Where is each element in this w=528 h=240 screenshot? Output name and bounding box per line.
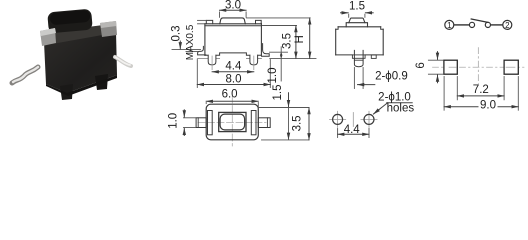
ref line y107.5 (259, 107, 310, 109)
boss right (front) (250, 55, 258, 65)
dim 1.5 line left arrow (341, 12, 349, 14)
hole left circle (333, 114, 343, 124)
photo body front face (44, 31, 117, 93)
MAX0.5 ref line body top ext (198, 23, 205, 25)
dim 4.4 line (holes) (338, 133, 369, 135)
body side right (260, 24, 262, 56)
dim 6 arrows (437, 52, 439, 60)
svg-text:H: H (294, 35, 306, 43)
body top (side) (338, 26, 381, 28)
foot top ref line left (186, 51, 198, 53)
photo metal cap left (40, 28, 56, 46)
hole left centerlines (330, 118, 346, 120)
dim 9.0 ext lines (443, 77, 445, 111)
schematic wire right (491, 24, 503, 26)
pad right (504, 60, 518, 74)
dim 7.2 ext lines (456, 77, 458, 100)
svg-text:7.2: 7.2 (473, 84, 489, 96)
dim 9.0 line (444, 106, 518, 108)
svg-text:6.0: 6.0 (222, 89, 238, 101)
body side left (204, 24, 206, 56)
photo bottom boss right (95, 74, 108, 90)
top view contact bar left (208, 111, 213, 135)
photo left leg (12, 67, 38, 83)
tab left (206, 20, 212, 23)
dim 4.4 boss centerlines (211, 56, 213, 70)
dim 1.5 line (top view) (288, 93, 290, 107)
H top ext line (247, 17, 311, 19)
top view button outer (219, 112, 246, 131)
dim 1.5 line right arrow (365, 12, 373, 14)
boss left (front) (208, 55, 216, 65)
top view centerline vertical (231, 96, 233, 146)
photo body lower edge shade (46, 75, 117, 96)
svg-text:1.0: 1.0 (267, 68, 279, 84)
dim 4.4 ext lines (holes) (337, 129, 339, 138)
top view body (206, 104, 258, 140)
schematic contact right (485, 22, 490, 27)
svg-text:1: 1 (447, 21, 452, 30)
body sides (side) (335, 29, 337, 55)
photo right leg (115, 57, 131, 66)
top view contact bar right (251, 111, 256, 135)
foot right (262, 44, 270, 57)
dim 3.0 ext lines (219, 12, 221, 17)
stem collar (side) (346, 23, 367, 27)
svg-text:holes: holes (387, 102, 415, 114)
dim 1.0 ext lines (184, 117, 196, 119)
mid centerline tick (352, 113, 354, 127)
dim 3.0 line (220, 9, 247, 11)
schematic contact left (469, 22, 474, 27)
svg-text:0.3: 0.3 (171, 26, 183, 42)
2-phi0.9 leader arrow (358, 84, 375, 86)
schematic terminal 2 circle (503, 20, 512, 29)
svg-text:MAX0.5: MAX0.5 (185, 24, 196, 60)
MAX0.5 ref line tab top ext (198, 19, 207, 21)
svg-text:4.4: 4.4 (225, 61, 242, 73)
svg-text:3.5: 3.5 (281, 33, 293, 49)
tab right (256, 20, 262, 23)
hole right circle (364, 114, 374, 124)
dim 6.0 line (206, 100, 258, 102)
dim 6 ext lines (428, 59, 443, 61)
svg-text:3.0: 3.0 (225, 0, 241, 11)
body bottom profile (205, 53, 262, 55)
button (front) (220, 18, 246, 24)
schematic lever (471, 19, 489, 23)
foot bottom ext right (270, 51, 288, 53)
body bottom (side) (336, 54, 353, 56)
svg-text:8.0: 8.0 (226, 74, 242, 86)
dim 8.0 line (197, 84, 270, 86)
body corner step right (381, 27, 384, 29)
top view button inner (220, 114, 245, 130)
dim 1.0 arrowheads (280, 52, 283, 55)
seating ext line right (270, 57, 316, 59)
stem (side) (349, 18, 365, 23)
2-phi0.9 ext lines (353, 68, 355, 89)
svg-text:9.0: 9.0 (480, 99, 496, 111)
dim 1.0 line (280, 47, 282, 81)
dim H line (309, 18, 311, 59)
boss (side) (354, 50, 363, 66)
top view centerline horizontal (198, 122, 266, 124)
dim 1.0 arrows (183, 110, 185, 117)
svg-text:2-ϕ0.9: 2-ϕ0.9 (375, 71, 408, 83)
pad right center dash (506, 66, 515, 68)
schematic terminal 1 circle (445, 20, 454, 29)
dim 1.5 ext lines (348, 14, 350, 17)
photo bottom boss left (60, 84, 73, 100)
dim 3.5 line (top view) (308, 108, 310, 140)
pad left (444, 60, 457, 74)
body top line (205, 23, 262, 25)
holes leader underline (387, 102, 413, 104)
foot cross-section line (354, 59, 363, 61)
dim 6.0 ext lines (205, 103, 207, 104)
schematic wire left (454, 24, 469, 26)
dim 9.0 text bg (479, 100, 498, 111)
svg-text:1.0: 1.0 (168, 113, 180, 129)
dim 0.3 ref line (172, 49, 201, 51)
photo button (47, 9, 93, 34)
ref line y139.9 (262, 139, 310, 141)
foot piece right (side) (371, 55, 376, 59)
foot cross-section box over boss (352, 55, 365, 58)
top view leg right tip line (266, 118, 268, 128)
svg-text:2: 2 (505, 21, 510, 30)
svg-text:1.5: 1.5 (349, 0, 365, 12)
foot left (198, 46, 206, 55)
3.5 top ext line (263, 25, 297, 27)
dim 7.2 line (457, 95, 504, 97)
pads centerline vertical dashed (477, 48, 479, 86)
hole right centerlines (361, 118, 377, 120)
top view leg left (196, 118, 206, 128)
dim 0.3 leader (179, 41, 181, 49)
holes leader arrow (374, 103, 388, 114)
body cover plate line (205, 25, 262, 27)
body corner step left (336, 27, 338, 29)
pad left center dash (449, 66, 456, 68)
dim 4.4 line (212, 71, 254, 73)
photo metal cap right (100, 21, 117, 37)
dim 8.0 ext lines (196, 60, 198, 88)
photo body top face (44, 24, 116, 44)
top view leg right (258, 118, 270, 128)
pads centerline horizontal dashed (433, 66, 527, 68)
seating line under body (197, 57, 219, 59)
dim 3.5 line (295, 26, 297, 59)
svg-text:6: 6 (415, 62, 427, 68)
top view leg left tip line (197, 118, 199, 128)
svg-text:1.5: 1.5 (272, 85, 284, 101)
svg-text:3.5: 3.5 (291, 115, 303, 131)
